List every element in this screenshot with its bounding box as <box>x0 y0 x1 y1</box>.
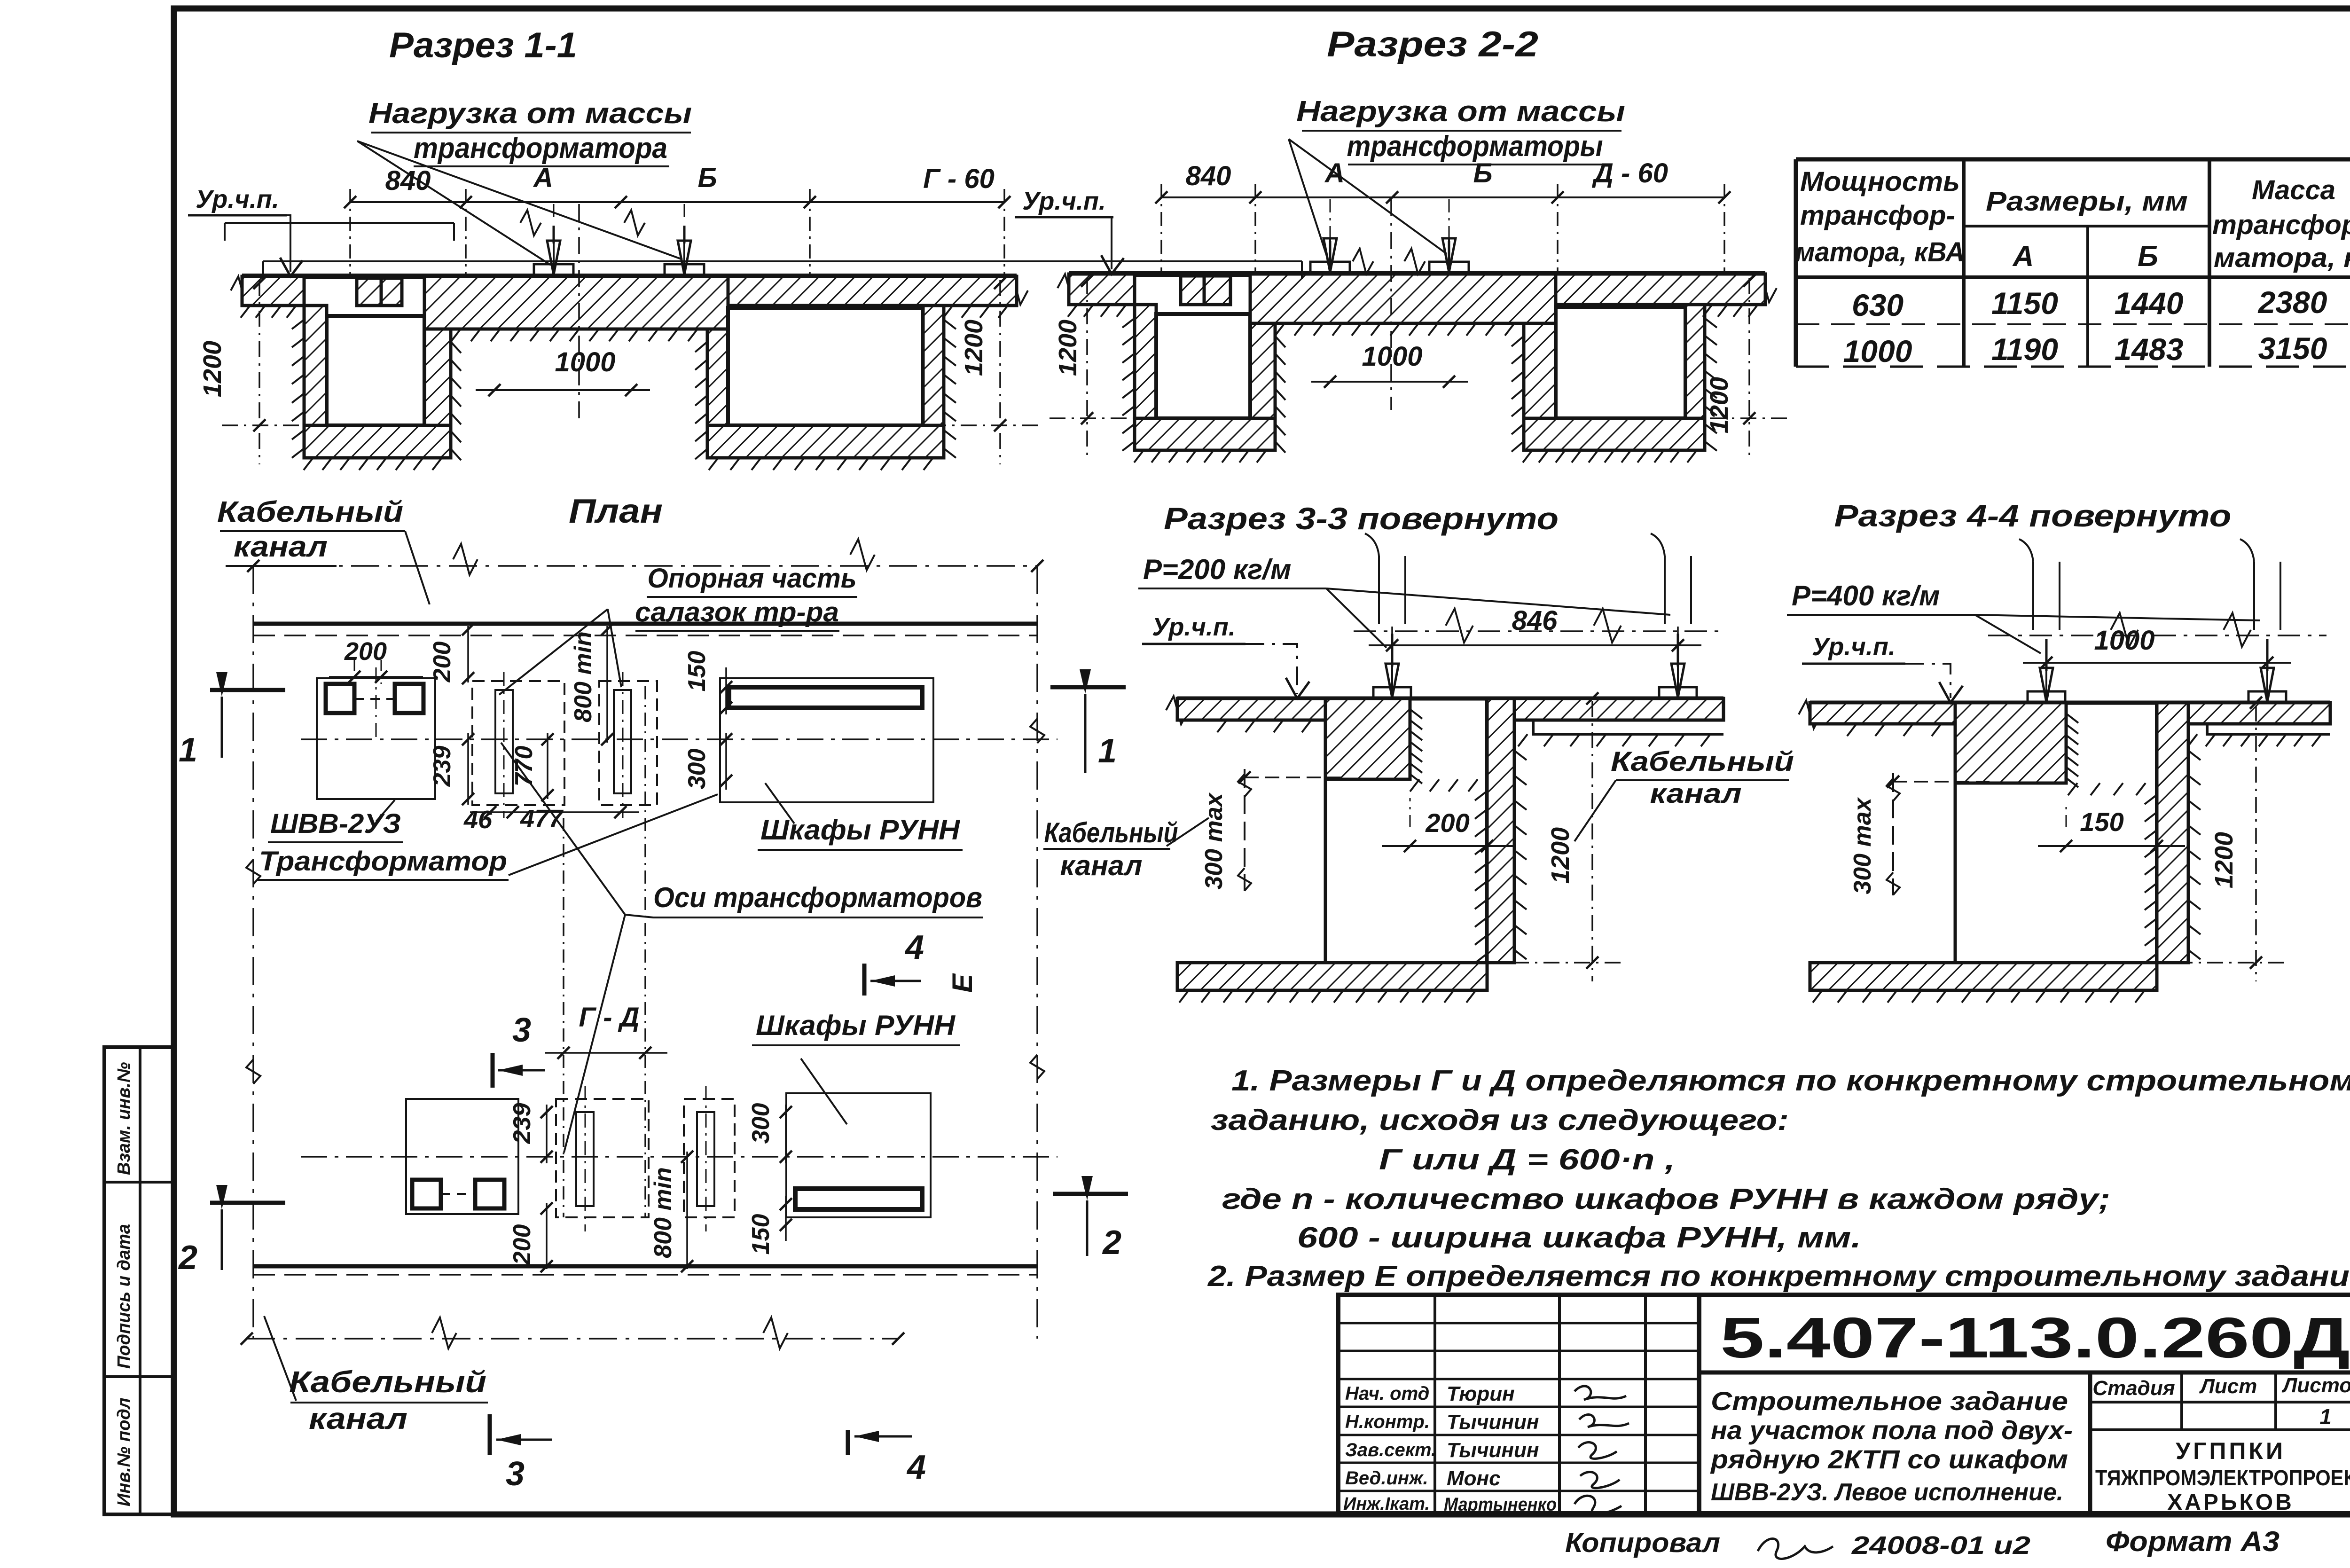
svg-text:Инж.Iкат.: Инж.Iкат. <box>1343 1494 1430 1514</box>
cable channel 3-3 leader <box>1574 780 1616 841</box>
niche vertical edges <box>1409 698 1412 779</box>
svg-text:Разрез 2-2: Разрез 2-2 <box>1327 24 1538 64</box>
right channel top slab hatch <box>1514 698 1723 720</box>
left pit right wall hatch <box>424 306 451 458</box>
section mark 1 right <box>1050 685 1126 690</box>
svg-text:3: 3 <box>506 1455 525 1493</box>
left pit inner wall line <box>1954 724 1957 963</box>
svg-text:150: 150 <box>683 651 711 692</box>
svg-text:1483: 1483 <box>2115 332 2184 367</box>
svg-text:200: 200 <box>509 1224 536 1266</box>
right wall hatch <box>2157 703 2188 963</box>
left floor slab hatch <box>1069 274 1135 305</box>
bottom row axis centerline <box>301 1156 1057 1158</box>
cable channel left leader <box>1167 818 1209 846</box>
left pit left wall hatch <box>304 306 327 458</box>
svg-text:150: 150 <box>747 1214 775 1255</box>
soil hatching deep section <box>1410 709 1422 719</box>
plan top axis dash-dot line <box>253 565 1037 567</box>
left pit cavity <box>1156 314 1250 418</box>
svg-text:канал: канал <box>1060 850 1143 881</box>
svg-text:Ур.ч.п.: Ур.ч.п. <box>1812 633 1896 661</box>
section mark 2 left <box>210 1201 285 1205</box>
left pit inner wall line <box>1324 720 1327 963</box>
cable channel top leader <box>405 531 430 604</box>
right pit cavity <box>728 308 923 425</box>
description cell divider <box>2088 1372 2092 1513</box>
right pit bottom slab hatch <box>1524 418 1705 450</box>
sled support rect 1 top row <box>472 681 564 805</box>
load arrows and transformer outline <box>225 222 454 224</box>
svg-text:Трансформатор: Трансформатор <box>259 846 507 877</box>
section mark 2 right <box>1053 1192 1128 1196</box>
svg-text:600 - ширина шкафа РУНН, мм.: 600 - ширина шкафа РУНН, мм. <box>1297 1222 1861 1254</box>
axis centerline <box>1390 199 1392 410</box>
right wall hatch <box>1487 698 1514 963</box>
svg-text:1200: 1200 <box>198 341 227 397</box>
svg-text:где n - количество шкафов Р: где n - количество шкафов РУНН в каждом … <box>1222 1183 2110 1215</box>
niche vertical edges <box>2065 703 2068 783</box>
svg-text:трансфор-: трансфор- <box>2212 210 2350 240</box>
bottom slab hatch <box>1810 963 2157 990</box>
svg-text:1200: 1200 <box>1705 377 1733 433</box>
svg-text:ШВВ-2УЗ. Левое исполнение.: ШВВ-2УЗ. Левое исполнение. <box>1711 1479 2063 1506</box>
svg-text:Зав.сект.: Зав.сект. <box>1345 1440 1436 1460</box>
svg-text:Листов: Листов <box>2281 1374 2350 1397</box>
soil hatching <box>241 306 250 318</box>
svg-text:770: 770 <box>510 746 538 787</box>
svg-text:Нагрузка от массы: Нагрузка от массы <box>368 97 692 130</box>
middle floor band hatch <box>1250 274 1556 323</box>
svg-text:заданию, исходя из следующег: заданию, исходя из следующего: <box>1211 1104 1789 1137</box>
niche under middle band <box>449 329 453 458</box>
section floor top line <box>1069 271 1765 277</box>
svg-text:Кабельный: Кабельный <box>1044 817 1178 848</box>
svg-text:Нагрузка от массы: Нагрузка от массы <box>1296 95 1625 128</box>
left pit bottom slab hatch <box>1135 418 1275 450</box>
svg-text:Ур.ч.п.: Ур.ч.п. <box>196 185 279 213</box>
transformer top row outline <box>317 678 435 799</box>
svg-text:840: 840 <box>1186 161 1231 191</box>
svg-text:Р=200 кг/м: Р=200 кг/м <box>1143 554 1291 585</box>
left pit left wall hatch <box>1135 305 1156 450</box>
svg-text:1200: 1200 <box>1054 320 1082 376</box>
transformer dash line <box>1988 635 2326 636</box>
svg-text:239: 239 <box>429 746 456 787</box>
top row axis centerline <box>301 738 1057 740</box>
top row rail centerlines <box>503 672 505 818</box>
bottom row rail centerlines <box>585 1086 586 1231</box>
load arrows and transformer outline <box>263 260 1302 262</box>
svg-text:матора, кВА: матора, кВА <box>1795 237 1965 267</box>
table outer border <box>1796 157 2350 162</box>
transformer rail support <box>1310 262 1350 274</box>
svg-text:1: 1 <box>1098 732 1117 770</box>
section mark 4 top <box>862 964 867 996</box>
svg-text:Г - Д: Г - Д <box>579 1002 639 1033</box>
svg-text:1000: 1000 <box>1362 341 1422 372</box>
right channel top slab hatch <box>2188 703 2330 724</box>
plan right axis line <box>1036 566 1038 1339</box>
cable channel bottom leader <box>264 1316 296 1401</box>
svg-text:800 min: 800 min <box>570 631 597 722</box>
plan left axis line <box>252 566 254 1339</box>
svg-text:Р=400 кг/м: Р=400 кг/м <box>1792 580 1940 612</box>
svg-text:Г - 60: Г - 60 <box>923 164 995 194</box>
svg-text:1000: 1000 <box>1843 334 1912 368</box>
svg-text:1000: 1000 <box>2094 625 2154 656</box>
svg-text:рядную 2КТП со шкафом: рядную 2КТП со шкафом <box>1710 1444 2068 1474</box>
svg-text:Строительное задание: Строительное задание <box>1711 1386 2068 1416</box>
left thin slab hatch <box>1177 698 1325 720</box>
section mark 3 top <box>491 1053 495 1088</box>
svg-text:Мощность: Мощность <box>1800 166 1960 197</box>
section floor top line <box>242 274 1017 279</box>
table column dividers <box>1962 159 1966 367</box>
svg-text:Б: Б <box>2138 240 2158 273</box>
title block left table verticals <box>1433 1295 1436 1513</box>
svg-text:5.407-113.0.260Д: 5.407-113.0.260Д <box>1720 1306 2350 1370</box>
transformer top row support pads <box>326 684 354 713</box>
svg-text:1200: 1200 <box>960 320 988 376</box>
svg-text:салазок тр-ра: салазок тр-ра <box>635 597 839 627</box>
RUNN cabinets top row outline <box>720 678 933 802</box>
svg-text:200: 200 <box>344 637 387 666</box>
svg-text:Инв.№ подл: Инв.№ подл <box>114 1398 134 1506</box>
svg-text:на участок пола под двух-: на участок пола под двух- <box>1711 1415 2073 1445</box>
channel ceiling lip <box>2188 724 2330 734</box>
svg-text:Кабельный: Кабельный <box>217 496 403 528</box>
svg-text:Г или Д = 600·n ,: Г или Д = 600·n , <box>1379 1144 1675 1176</box>
transformer rail support <box>665 264 704 276</box>
floor top line <box>1177 697 1723 701</box>
RUNN cabinets bottom row bar <box>795 1189 922 1209</box>
svg-text:2: 2 <box>1102 1224 1121 1262</box>
svg-text:Разрез 1-1: Разрез 1-1 <box>389 25 577 65</box>
svg-text:Нач. отд: Нач. отд <box>1345 1383 1429 1404</box>
svg-text:Шкафы РУНН: Шкафы РУНН <box>756 1010 956 1041</box>
svg-text:Н.контр.: Н.контр. <box>1345 1411 1430 1432</box>
svg-text:Оси трансформаторов: Оси трансформаторов <box>653 882 982 913</box>
svg-text:канал: канал <box>234 531 328 563</box>
svg-text:Ур.ч.п.: Ур.ч.п. <box>1022 187 1106 215</box>
svg-text:200: 200 <box>429 642 456 683</box>
right top slab hatch <box>1556 274 1765 305</box>
left thin slab hatch <box>1810 703 1955 724</box>
svg-text:Тычинин: Тычинин <box>1447 1439 1539 1462</box>
soil hatching deep section <box>2066 713 2078 723</box>
svg-text:24008-01 и2: 24008-01 и2 <box>1851 1531 2030 1560</box>
svg-text:300: 300 <box>683 749 711 790</box>
svg-text:1200: 1200 <box>2210 832 2238 888</box>
svg-text:ШВВ-2УЗ: ШВВ-2УЗ <box>270 808 401 839</box>
plan bottom wall line <box>253 1264 1037 1269</box>
svg-text:Разрез 4-4 повернуто: Разрез 4-4 повернуто <box>1834 498 2232 533</box>
svg-text:План: План <box>569 493 663 530</box>
svg-text:А: А <box>533 163 553 193</box>
svg-text:А: А <box>2012 240 2034 273</box>
left pit cavity <box>327 316 424 425</box>
svg-text:А: А <box>1324 158 1345 188</box>
load rails and arrows <box>2028 691 2065 703</box>
svg-text:Мартыненко: Мартыненко <box>1444 1494 1557 1515</box>
svg-text:1: 1 <box>2319 1404 2332 1429</box>
svg-text:1440: 1440 <box>2115 286 2184 321</box>
svg-text:Б: Б <box>1473 158 1492 188</box>
svg-text:3150: 3150 <box>2258 331 2327 366</box>
svg-text:477: 477 <box>520 805 564 833</box>
svg-text:Взам. инв.№: Взам. инв.№ <box>114 1062 134 1175</box>
svg-text:Подпись и дата: Подпись и дата <box>114 1224 134 1369</box>
svg-text:4: 4 <box>906 1449 926 1486</box>
svg-text:Стадия: Стадия <box>2092 1377 2175 1400</box>
svg-text:1150: 1150 <box>1991 286 2058 321</box>
svg-text:300: 300 <box>747 1103 775 1144</box>
section 1-1 load leader lines <box>357 141 551 265</box>
right pit cavity <box>1556 307 1685 418</box>
soil hatching <box>1068 305 1077 317</box>
svg-text:канал: канал <box>309 1402 407 1435</box>
title block outer border <box>1338 1295 2350 1513</box>
svg-text:канал: канал <box>1650 778 1742 809</box>
svg-text:Е: Е <box>947 973 978 993</box>
floor top line <box>1810 701 2330 705</box>
middle thick mass hatch <box>1325 698 1410 779</box>
dimension line top <box>350 201 1004 203</box>
left floor slab hatch <box>242 276 304 306</box>
middle thick mass hatch <box>1955 703 2066 783</box>
svg-text:Масса: Масса <box>2252 175 2335 205</box>
plan top wall line <box>253 622 1037 626</box>
channel ceiling lip <box>1514 720 1723 734</box>
transformer bottom row outline <box>406 1099 518 1214</box>
transformer bottom row support pads <box>412 1180 441 1208</box>
svg-text:трансформатора: трансформатора <box>414 132 667 165</box>
svg-text:2. Размер Е определяется по к: 2. Размер Е определяется по конкретному … <box>1207 1260 2350 1293</box>
section mark 1 left <box>210 688 285 692</box>
svg-text:УГППКИ: УГППКИ <box>2176 1438 2286 1464</box>
title block left table rows <box>1338 1322 1699 1325</box>
svg-text:1: 1 <box>179 731 197 769</box>
svg-text:300 max: 300 max <box>1200 792 1228 889</box>
svg-text:300 max: 300 max <box>1849 797 1876 894</box>
signatures scribbles <box>1574 1386 1629 1427</box>
RUNN cabinets top row bar <box>729 687 922 708</box>
svg-text:46: 46 <box>463 806 493 834</box>
svg-text:840: 840 <box>385 165 431 196</box>
bottom slab hatch <box>1177 963 1487 990</box>
plan bottom axis dash-dot line <box>247 1338 898 1340</box>
niche under middle band <box>1274 323 1277 450</box>
svg-text:1190: 1190 <box>1991 332 2058 367</box>
svg-text:846: 846 <box>1512 605 1558 636</box>
left pit cover squares hatch <box>1181 276 1204 305</box>
RUNN cabinets bottom row outline <box>786 1093 931 1217</box>
svg-text:800 min: 800 min <box>650 1167 677 1258</box>
right top slab hatch <box>728 276 1017 306</box>
right pit left wall hatch <box>707 329 728 458</box>
section 2-2 load leader lines <box>1289 139 1327 258</box>
document number cell <box>1699 1371 2350 1375</box>
opornaya leader lines <box>499 609 608 695</box>
svg-text:ХАРЬКОВ: ХАРЬКОВ <box>2167 1490 2294 1515</box>
right pit right wall hatch <box>923 306 944 458</box>
svg-text:Кабельный: Кабельный <box>1611 746 1794 777</box>
svg-text:Тюрин: Тюрин <box>1447 1382 1515 1405</box>
transformer rail support <box>1429 262 1469 274</box>
svg-text:3: 3 <box>512 1011 531 1049</box>
svg-text:Опорная часть: Опорная часть <box>648 563 857 594</box>
load rails and arrows <box>1373 687 1411 698</box>
svg-text:2: 2 <box>178 1239 197 1277</box>
svg-text:Б: Б <box>697 163 717 193</box>
middle floor band hatch <box>424 276 728 329</box>
right pit right wall hatch <box>1685 305 1705 450</box>
svg-text:200: 200 <box>1425 808 1469 838</box>
svg-text:630: 630 <box>1852 288 1903 322</box>
transformer dash line <box>1354 630 1720 632</box>
svg-text:Размеры, мм: Размеры, мм <box>1986 186 2188 217</box>
svg-text:Д - 60: Д - 60 <box>1591 158 1668 188</box>
sled support rect 2 top row <box>599 681 657 805</box>
svg-text:Монс: Монс <box>1447 1467 1501 1490</box>
svg-text:Лист: Лист <box>2199 1375 2257 1398</box>
svg-text:239: 239 <box>509 1103 536 1145</box>
svg-text:1. Размеры Г и Д определяютс: 1. Размеры Г и Д определяются по конкрет… <box>1231 1065 2350 1097</box>
transformer rail support <box>534 264 573 276</box>
svg-text:Ур.ч.п.: Ур.ч.п. <box>1152 613 1236 641</box>
stamp boxes left edge <box>104 1047 175 1514</box>
svg-text:1000: 1000 <box>555 347 615 377</box>
left pit bottom slab hatch <box>304 425 451 458</box>
sled support rect 2 bottom row <box>684 1099 735 1217</box>
svg-text:Копировал: Копировал <box>1565 1528 1720 1558</box>
svg-text:Тычинин: Тычинин <box>1447 1411 1539 1434</box>
svg-text:трансфор-: трансфор- <box>1800 200 1955 231</box>
stadiya list listov header <box>2090 1401 2350 1403</box>
dimension line top <box>1161 196 1724 198</box>
svg-text:ТЯЖПРОМЭЛЕКТРОПРОЕКТ: ТЯЖПРОМЭЛЕКТРОПРОЕКТ <box>2095 1466 2350 1490</box>
svg-text:матора, кг: матора, кг <box>2214 243 2350 273</box>
svg-text:Разрез 3-3 повернуто: Разрез 3-3 повернуто <box>1164 501 1559 536</box>
svg-text:150: 150 <box>2080 807 2123 837</box>
left pit cover squares hatch <box>357 278 381 306</box>
section mark 3 bottom <box>488 1414 492 1455</box>
svg-text:4: 4 <box>904 929 924 966</box>
axis centerline <box>578 204 580 418</box>
table header underline rows <box>1964 225 2209 227</box>
sled support rect 1 bottom row <box>556 1099 649 1217</box>
section mark 4 bottom <box>846 1430 850 1455</box>
svg-text:Вед.инж.: Вед.инж. <box>1345 1468 1428 1489</box>
svg-text:1200: 1200 <box>1546 827 1574 884</box>
left pit right wall hatch <box>1250 305 1275 450</box>
right pit left wall hatch <box>1524 323 1556 450</box>
svg-text:2380: 2380 <box>2257 285 2327 320</box>
svg-text:Кабельный: Кабельный <box>289 1365 486 1399</box>
svg-text:Формат А3: Формат А3 <box>2106 1526 2279 1557</box>
right pit bottom slab hatch <box>707 425 944 458</box>
